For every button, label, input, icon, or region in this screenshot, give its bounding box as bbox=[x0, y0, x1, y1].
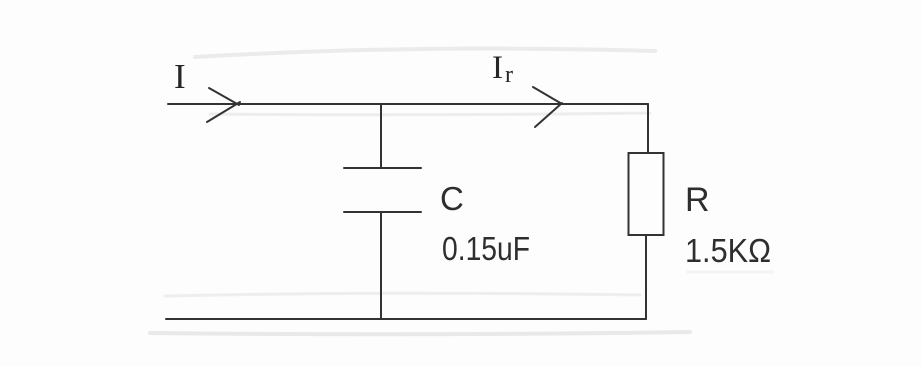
wire capacitor top lead bbox=[380, 104, 382, 168]
svg-text:0.15uF: 0.15uF bbox=[442, 230, 530, 267]
capacitor C plates bbox=[344, 168, 421, 212]
svg-text:C: C bbox=[440, 180, 464, 217]
wire right vertical to resistor bbox=[647, 104, 649, 153]
arrow for current Ir bbox=[533, 87, 562, 127]
svg-text:R: R bbox=[685, 181, 710, 219]
wire bottom return bbox=[166, 318, 646, 320]
wire resistor bottom lead bbox=[645, 235, 647, 319]
svg-text:1.5KΩ: 1.5KΩ bbox=[685, 232, 771, 269]
arrow for current I bbox=[207, 88, 240, 122]
wire top (node A to node B) bbox=[168, 103, 648, 105]
wire capacitor bottom lead bbox=[380, 212, 382, 319]
resistor R body bbox=[629, 153, 664, 235]
svg-text:I: I bbox=[174, 57, 186, 96]
